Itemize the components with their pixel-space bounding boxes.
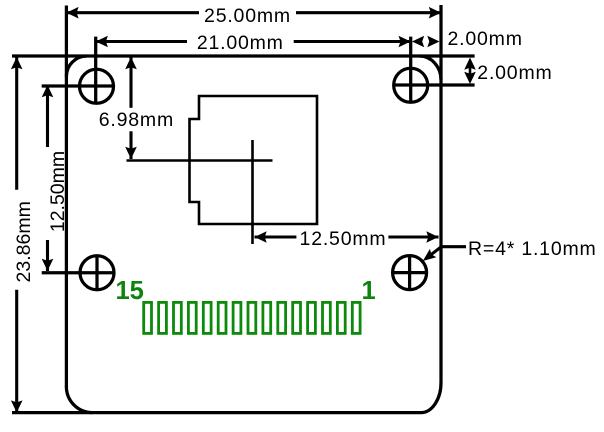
arrowhead 23.86mm down <box>11 400 23 412</box>
arrowhead 2.00mm vertical up <box>464 58 476 70</box>
radius leader line horizontal <box>441 245 466 248</box>
arrowhead 12.50mm bottom right <box>426 231 438 243</box>
board outline top-left corner arc <box>66 56 87 77</box>
board outline bottom-right corner arc <box>421 382 441 413</box>
radius leader line diagonal <box>426 247 441 259</box>
arrowhead 6.98mm up <box>125 57 137 69</box>
arrowhead 21.00mm right <box>399 36 411 48</box>
arrowhead 25.00mm right <box>429 7 441 19</box>
mounting hole top-left circle <box>80 69 114 103</box>
dimension 12.50mm bottom line left segment <box>255 235 297 238</box>
arrowhead 25.00mm left <box>66 7 78 19</box>
board outline bottom-left corner arc <box>66 386 92 413</box>
mounting hole bottom-left circle <box>80 256 114 290</box>
mounting hole bottom-right vertical center line <box>408 255 411 291</box>
mounting hole top-left horizontal center line <box>42 84 115 87</box>
dimension 23.86mm line bottom segment <box>15 290 18 412</box>
svg-text:21.00mm: 21.00mm <box>197 32 284 54</box>
dimension 12.50mm bottom line right segment <box>388 235 438 238</box>
svg-text:2.00mm: 2.00mm <box>477 62 552 84</box>
svg-text:12.50mm: 12.50mm <box>300 228 387 250</box>
mounting hole top-left vertical center line <box>94 37 97 104</box>
connector pins 15..1 <box>144 302 360 333</box>
sensor housing outline <box>190 96 318 224</box>
arrowhead 23.86mm up <box>11 57 23 69</box>
mounting hole top-right horizontal center line <box>393 83 475 86</box>
arrowhead 12.50mm left up <box>42 85 54 97</box>
arrowhead 6.98mm down <box>125 147 137 159</box>
arrowhead 21.00mm left <box>96 36 108 48</box>
dimension 12.50mm left line bottom segment <box>46 240 49 271</box>
dimension 6.98mm line bottom segment <box>129 131 132 159</box>
dimension 25.00mm line left segment <box>66 11 199 14</box>
svg-text:23.86mm: 23.86mm <box>13 201 35 282</box>
board outline right edge <box>439 5 442 382</box>
arrowhead radius leader <box>423 249 437 261</box>
sensor center crosshair vertical <box>251 140 254 244</box>
mounting hole bottom-left horizontal center line <box>42 271 115 274</box>
mounting hole bottom-right horizontal center line <box>392 271 428 274</box>
shaft 2.00mm vertical <box>469 62 472 80</box>
dimension 21.00mm line left segment <box>96 40 187 43</box>
svg-text:25.00mm: 25.00mm <box>204 5 291 27</box>
dimension 6.98mm line top segment <box>129 57 132 108</box>
arrowhead 2.00mm vertical down <box>464 72 476 84</box>
mounting hole bottom-right circle <box>393 256 427 290</box>
arrowhead 2.00mm horizontal left <box>412 36 424 48</box>
svg-text:6.98mm: 6.98mm <box>99 109 174 131</box>
svg-text:1: 1 <box>362 277 376 305</box>
dimension 12.50mm left line top segment <box>46 85 49 147</box>
svg-text:2.00mm: 2.00mm <box>448 28 523 50</box>
board outline left edge <box>65 6 68 388</box>
mounting hole top-right vertical center line <box>409 37 412 103</box>
dimension 25.00mm line right segment <box>296 11 441 14</box>
board outline bottom edge <box>12 411 421 414</box>
board outline top edge with extensions <box>12 54 475 57</box>
dimension 23.86mm line top segment <box>15 57 18 190</box>
arrowhead 12.50mm bottom left <box>255 231 267 243</box>
mounting hole bottom-left vertical center line <box>95 255 98 291</box>
arrowhead 2.00mm horizontal right <box>427 36 439 48</box>
svg-text:15: 15 <box>116 277 144 305</box>
svg-text:R=4* 1.10mm: R=4* 1.10mm <box>468 238 597 260</box>
arrowhead 12.50mm left down <box>42 259 54 271</box>
board outline top-right corner arc <box>420 56 442 80</box>
dimension 21.00mm line right segment <box>294 40 411 43</box>
svg-text:12.50mm: 12.50mm <box>47 151 69 232</box>
mounting hole top-right circle <box>394 68 428 102</box>
sensor center crosshair horizontal <box>127 159 273 162</box>
